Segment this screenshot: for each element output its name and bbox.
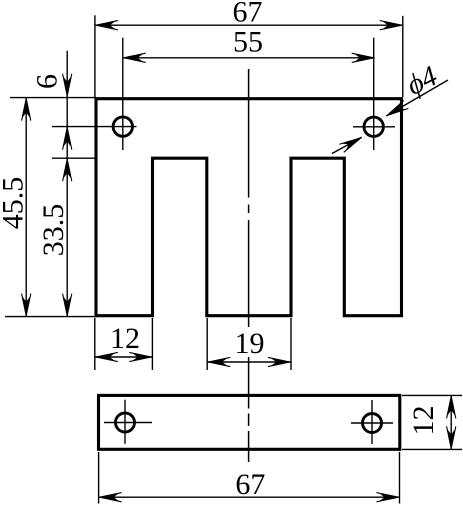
centerlines hole E-left: [52, 38, 137, 150]
dimension 6: dimension line (shared with 33.5): [66, 51, 68, 317]
svg-text:19: 19: [235, 327, 265, 360]
dimension 45.5: extension lines: [5, 98, 98, 317]
dimension phi4: arrows: [384, 100, 409, 120]
dimension 12 bottom-left: arrows: [95, 352, 118, 361]
hole I-left: [116, 413, 135, 432]
dimension 67 top: arrows: [95, 21, 118, 30]
dimension 67 top: dimension line: [95, 24, 403, 26]
svg-text:55: 55: [233, 25, 263, 58]
svg-text:67: 67: [235, 468, 265, 501]
dimension 19: extension lines: [207, 318, 291, 370]
I-bar outline: [99, 395, 400, 449]
centerlines hole I-left: [104, 400, 152, 444]
dimension 12 right: arrows: [447, 395, 456, 418]
dimension 12 bottom-left: dimension line: [95, 356, 153, 358]
centerlines hole I-right: [351, 400, 393, 444]
svg-text:12: 12: [407, 406, 440, 436]
dimension 12 right: dimension line: [450, 395, 452, 449]
dimension 33.5: extension line (slot top): [52, 157, 96, 159]
dimension 67 bottom: dimension line: [99, 496, 400, 498]
centerlines hole E-right: [353, 38, 395, 150]
dimension phi4: leader line upper: [386, 80, 448, 116]
hole E-right: [364, 117, 383, 136]
dimension 67 top: extension lines: [95, 15, 403, 97]
hole E-left: [113, 117, 132, 136]
dimension 6: arrows (outside): [63, 74, 72, 97]
dimension 33.5: arrows: [63, 158, 72, 181]
dimension 45.5: arrows: [22, 98, 31, 121]
dimension 19: arrows: [207, 357, 230, 366]
dimension phi4: leader line lower: [332, 137, 362, 153]
svg-text:45.5: 45.5: [0, 177, 30, 230]
dimension 12 right: extension lines: [402, 395, 462, 449]
svg-text:33.5: 33.5: [37, 204, 70, 257]
dimension 55: dimension line: [123, 57, 375, 59]
dimension 45.5: dimension line: [25, 98, 27, 317]
dimension 67 bottom: arrows: [99, 493, 122, 502]
dimension 55: arrows: [123, 53, 146, 62]
svg-text:6: 6: [31, 74, 64, 89]
svg-text:12: 12: [110, 322, 140, 355]
dimension 67 bottom: extension lines: [99, 452, 400, 504]
vertical centerline of part (dash-dot): [248, 69, 250, 462]
dimension 12 bottom-left: extension lines: [95, 318, 153, 370]
E-lamination outline: [96, 99, 402, 316]
dimension 19: dimension line: [207, 361, 291, 363]
hole I-right: [363, 414, 382, 433]
